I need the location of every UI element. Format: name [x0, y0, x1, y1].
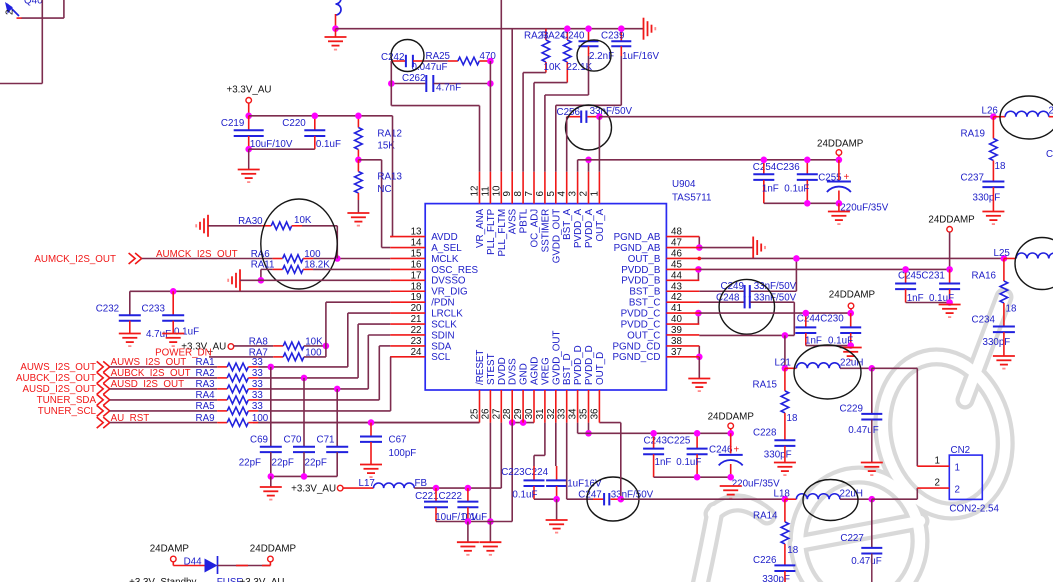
svg-text:PVDD_A: PVDD_A	[584, 208, 595, 248]
wire PVDD_B pins 44,45	[697, 269, 699, 280]
svg-text:2: 2	[955, 485, 960, 496]
junction	[847, 342, 854, 349]
svg-text:LRCLK: LRCLK	[431, 309, 463, 320]
svg-text:GVDD_OUT: GVDD_OUT	[551, 209, 562, 263]
svg-text:11: 11	[480, 186, 491, 196]
junction	[990, 113, 997, 120]
wire AVSS net	[336, 28, 644, 30]
junction	[465, 518, 472, 525]
wire RA23 to pin8	[523, 72, 546, 74]
pin 30 AGND	[533, 390, 535, 423]
junction	[245, 146, 252, 153]
wire LRCLK riser	[347, 313, 349, 367]
junction	[869, 365, 876, 372]
junction	[782, 496, 789, 503]
pin 34 PVDD_D	[577, 390, 579, 423]
pin 15 MCLK	[390, 257, 425, 259]
svg-text:SCL: SCL	[431, 352, 451, 363]
pin 16 OSC_RES	[390, 268, 425, 270]
wire OUT_B net	[699, 257, 1004, 259]
wire RA30 net	[208, 225, 262, 227]
pin 20 LRCLK	[390, 312, 425, 314]
junction	[596, 113, 603, 120]
annotation circle around C248 C249	[719, 279, 774, 334]
capacitor C69 22pF	[270, 367, 272, 447]
svg-text:C246: C246	[709, 445, 733, 456]
wire GVDD_OUT pin32 to C224	[555, 423, 557, 466]
ground (rotated left)	[228, 269, 240, 291]
svg-text:C254C236: C254C236	[753, 162, 800, 173]
resistor RA13 NC	[355, 172, 363, 194]
svg-text:30: 30	[524, 408, 535, 419]
wire VREG pin31 to C223	[544, 423, 546, 456]
svg-text:10K: 10K	[544, 62, 562, 73]
svg-text:RA1: RA1	[196, 357, 215, 368]
pin 13 AVDD	[390, 236, 425, 238]
ground	[698, 357, 700, 379]
svg-text:39: 39	[671, 325, 682, 336]
svg-text:VR_ANA: VR_ANA	[475, 208, 486, 248]
resistor RA4 33	[110, 399, 218, 401]
svg-text:8: 8	[513, 191, 524, 197]
resistor RA14 18	[784, 499, 786, 522]
svg-text:28: 28	[502, 408, 513, 419]
svg-text:26: 26	[480, 408, 491, 419]
pin 26 STEST	[489, 390, 491, 423]
svg-text:7: 7	[524, 191, 535, 196]
wire C248 to OUT_C	[793, 302, 795, 335]
wire ground rail	[436, 521, 512, 523]
svg-text:OUT_A: OUT_A	[595, 208, 606, 241]
svg-text:27: 27	[491, 409, 502, 420]
junction	[368, 419, 375, 426]
svg-text:C219: C219	[221, 118, 244, 129]
svg-text:PVDD_D: PVDD_D	[573, 345, 584, 385]
annotation circle around L26	[1000, 96, 1053, 139]
ground	[270, 476, 272, 487]
svg-text:SSTIMER: SSTIMER	[540, 209, 551, 253]
wire L18 to CN pin2	[872, 498, 918, 500]
svg-text:C228: C228	[753, 428, 777, 439]
svg-text:VR_DIG: VR_DIG	[431, 287, 467, 298]
junction	[782, 332, 789, 339]
svg-text:PVDD_D: PVDD_D	[584, 345, 595, 385]
wire	[22, 17, 64, 19]
svg-text:RA3: RA3	[196, 379, 216, 390]
svg-text:+3.3V_AU: +3.3V_AU	[291, 484, 336, 495]
junction	[946, 266, 953, 273]
svg-text:6: 6	[535, 191, 546, 197]
svg-text:0.47uF: 0.47uF	[848, 425, 879, 436]
annotation circle around C242	[391, 40, 424, 72]
svg-text:C237: C237	[961, 173, 984, 184]
pin 45 PVDD_B	[666, 268, 699, 270]
svg-text:RA12: RA12	[377, 129, 402, 140]
junction	[650, 430, 657, 437]
svg-text:C223C224: C223C224	[501, 467, 548, 478]
wire C249 to OUT_B	[795, 258, 797, 291]
svg-text:AGND: AGND	[530, 357, 541, 385]
pin 9 BST_A	[511, 172, 513, 204]
pin 22 SDIN	[390, 334, 425, 336]
svg-text:GVDD_OUT: GVDD_OUT	[551, 331, 562, 385]
junction	[727, 430, 734, 437]
wire	[258, 366, 348, 368]
svg-text:AVDD: AVDD	[431, 232, 458, 243]
svg-text:AUBCK_I2S_OUT: AUBCK_I2S_OUT	[16, 373, 96, 384]
capacitor C70 22pF	[303, 378, 305, 447]
wire C219-C220 bottoms	[249, 148, 315, 150]
svg-text:RA15: RA15	[753, 380, 778, 391]
junction	[334, 255, 341, 262]
svg-text:330pF: 330pF	[973, 193, 1001, 204]
svg-text:VREG: VREG	[540, 357, 551, 385]
ground	[162, 334, 184, 347]
svg-text:MCLK: MCLK	[431, 254, 459, 265]
junction	[585, 430, 592, 437]
junction	[761, 157, 768, 164]
svg-text:22pF: 22pF	[239, 458, 261, 469]
pin 31 VREG	[544, 390, 546, 423]
svg-text:36: 36	[589, 408, 600, 419]
svg-text:OC_ADJ: OC_ADJ	[530, 209, 541, 248]
svg-text:1uF16V: 1uF16V	[567, 479, 602, 490]
pin 6 OC_ADJ	[544, 172, 546, 204]
pin 4 AVSS	[566, 172, 568, 204]
svg-text:2: 2	[579, 191, 590, 196]
svg-text:BST_C: BST_C	[629, 298, 661, 309]
wire STEST pin26 to ground rail	[489, 423, 491, 522]
svg-text:C71: C71	[317, 434, 335, 445]
svg-text:1nF: 1nF	[655, 457, 672, 468]
resistor RA8 10K	[234, 345, 273, 347]
wire PGND_CD pins 37,38	[698, 346, 700, 357]
junction	[618, 496, 625, 503]
ground	[838, 203, 840, 211]
junction	[585, 25, 592, 32]
svg-text:A_SEL: A_SEL	[431, 243, 462, 254]
pin 7 SSTIMER	[533, 172, 535, 204]
wire +3.3V_AU rail	[249, 115, 393, 117]
svg-text:TUNER_SCL: TUNER_SCL	[38, 406, 97, 417]
svg-text:RA13: RA13	[377, 172, 402, 183]
pin 48 PGND_AB	[666, 236, 699, 238]
junction	[268, 473, 275, 480]
annotation circle around RA30 RA6	[261, 199, 337, 289]
svg-text:L21: L21	[775, 358, 791, 369]
junction	[323, 343, 330, 350]
svg-text:15: 15	[411, 248, 422, 259]
pin 8 GVDD_OUT	[522, 172, 524, 204]
junction	[170, 288, 177, 295]
junction	[696, 354, 703, 361]
pin stub	[335, 14, 337, 29]
svg-text:AUWS_I2S_OUT: AUWS_I2S_OUT	[20, 362, 96, 373]
svg-text:21: 21	[411, 314, 422, 325]
junction	[487, 518, 494, 525]
junction	[727, 474, 734, 481]
svg-text:45: 45	[671, 259, 682, 270]
svg-text:1nF: 1nF	[762, 184, 779, 195]
junction	[1001, 255, 1008, 262]
wire OUT_D net	[621, 498, 785, 500]
pin 2 of CN2	[917, 487, 949, 489]
wire BST_D pin33 to C247	[566, 423, 568, 500]
svg-text:24DDAMP: 24DDAMP	[817, 139, 864, 150]
pin 1 VR_ANA	[598, 172, 600, 204]
svg-text:RA16: RA16	[972, 271, 997, 282]
svg-text:PVDD_C: PVDD_C	[621, 319, 661, 330]
svg-text:330pF: 330pF	[762, 574, 790, 582]
wire PVDD_D rail	[578, 432, 731, 434]
annotation circle around L21	[794, 345, 861, 399]
svg-text:2: 2	[935, 477, 940, 488]
junction	[553, 496, 560, 503]
pin 36 OUT_D	[598, 390, 600, 423]
inductor L (partial, top)	[336, 0, 342, 15]
ground (rotated)	[644, 18, 656, 40]
pin 29 GND	[522, 390, 524, 423]
wire SCLK riser	[357, 324, 359, 378]
junction	[301, 375, 308, 382]
port chevron	[97, 405, 110, 416]
wire POWER_DN riser to /PDN	[325, 302, 327, 357]
svg-text:0.1uF: 0.1uF	[316, 139, 341, 150]
svg-text:100: 100	[305, 347, 322, 358]
junction	[695, 266, 702, 273]
svg-text:24DDAMP: 24DDAMP	[250, 543, 297, 554]
ground	[861, 463, 883, 476]
wire DVSS to ground rail	[511, 423, 513, 522]
svg-text:34: 34	[568, 408, 579, 419]
svg-text:PVDD_C: PVDD_C	[621, 309, 661, 320]
pin 2 PLL_FLTP	[588, 172, 590, 204]
wire cap bottoms	[534, 498, 557, 500]
svg-text:C226: C226	[753, 555, 777, 566]
svg-text:AUSD_I2S_OUT: AUSD_I2S_OUT	[22, 384, 96, 395]
annotation circle around C256	[566, 105, 612, 150]
svg-text:5: 5	[546, 191, 557, 197]
resistor RA5 33	[110, 410, 218, 412]
svg-text:18: 18	[411, 281, 422, 292]
capacitor C225 0.1uF	[696, 433, 698, 448]
svg-text:18: 18	[787, 545, 798, 556]
ground (rotated)	[753, 237, 765, 259]
wire	[258, 399, 379, 401]
ground	[556, 499, 558, 520]
wire PVDD_A rail 24DDAMP	[578, 159, 839, 161]
wire OUT_C to L21	[784, 335, 786, 368]
svg-text:L25: L25	[994, 248, 1011, 259]
svg-text:16: 16	[411, 259, 422, 270]
wire OUT_C net	[699, 334, 794, 336]
ground	[335, 29, 337, 37]
resistor RA12 15K	[357, 116, 359, 128]
svg-text:PLL_FLTP: PLL_FLTP	[486, 208, 497, 255]
junction	[258, 277, 265, 284]
svg-text:17: 17	[411, 270, 422, 281]
ground	[982, 212, 1004, 225]
svg-text:43: 43	[671, 281, 682, 292]
svg-text:40: 40	[671, 314, 682, 325]
svg-text:RA14: RA14	[753, 511, 778, 522]
junction	[312, 113, 319, 120]
svg-text:CN2: CN2	[951, 445, 971, 456]
wire OUT_A pin1	[598, 117, 600, 172]
port chevron	[97, 417, 110, 428]
junction	[355, 157, 362, 164]
pin 47 PGND_AB	[666, 247, 699, 249]
pin 40 PVDD_C	[666, 323, 699, 325]
wire +3.3V rail	[414, 487, 501, 489]
wire to pin 14 A_SEL	[358, 159, 381, 161]
svg-text:DVSSO: DVSSO	[431, 276, 466, 287]
junction	[520, 419, 527, 426]
wire RA24 to pin7	[534, 82, 567, 84]
resistor RA9 100	[110, 422, 218, 424]
wire cap bottoms	[906, 302, 950, 304]
wire L21 to CN pin1	[872, 367, 918, 369]
resistor RA2 33	[110, 377, 218, 379]
wire PVDD_D pins 34,35	[577, 423, 579, 434]
svg-text:RA30: RA30	[238, 216, 263, 227]
pin 33 BST_D	[566, 390, 568, 423]
svg-text:35: 35	[579, 408, 590, 419]
wire PLL left node	[390, 61, 392, 106]
pin 14 A_SEL	[390, 247, 425, 249]
svg-text:+: +	[734, 445, 740, 456]
resistor RA1 33	[110, 366, 218, 368]
svg-text:330pF: 330pF	[983, 337, 1011, 348]
ground	[774, 463, 796, 476]
wire MCLK net	[142, 258, 273, 260]
junction	[618, 25, 625, 32]
wire	[41, 0, 43, 84]
svg-text:STEST: STEST	[486, 353, 497, 385]
svg-text:L18: L18	[774, 489, 791, 500]
pin 35 PVDD_D	[588, 390, 590, 423]
pin 27 DVDD	[500, 390, 502, 423]
svg-text:OSC_RES: OSC_RES	[431, 265, 478, 276]
pin 24 SCL	[390, 356, 425, 358]
wire PVDD_B rail	[698, 268, 949, 270]
junction	[869, 496, 876, 503]
junction	[388, 80, 395, 87]
svg-text:C240: C240	[561, 31, 585, 42]
wire	[313, 268, 390, 270]
ground	[840, 348, 862, 361]
wire SCL riser	[390, 357, 392, 411]
pin 37 PGND_CD	[666, 356, 699, 358]
svg-text:SDIN: SDIN	[431, 330, 454, 341]
svg-text:0.047uF: 0.047uF	[412, 62, 448, 73]
wire cap bottoms	[806, 345, 851, 347]
wire BST_A pin4	[566, 117, 568, 172]
capacitor C224 1uF16V	[556, 466, 558, 480]
ground	[360, 465, 382, 478]
resistor RA23 10K	[545, 29, 547, 40]
ground	[720, 486, 742, 499]
svg-text:29: 29	[513, 409, 524, 420]
svg-text:+3.3V_AU: +3.3V_AU	[227, 85, 272, 96]
annotation circle around L18	[803, 480, 858, 521]
pin 10 PVDD_A	[500, 172, 502, 204]
svg-text:24DDAMP: 24DDAMP	[829, 290, 876, 301]
junction	[793, 255, 800, 262]
svg-text:+3.3V_AU: +3.3V_AU	[240, 577, 285, 582]
junction	[585, 157, 592, 164]
resistor RA24 22.1K	[566, 29, 568, 40]
wire C239 to pin5	[620, 56, 622, 105]
svg-text:38: 38	[671, 336, 682, 347]
junction	[847, 310, 854, 317]
svg-text:47: 47	[671, 238, 682, 249]
wire	[218, 565, 271, 567]
wire /RESET pin25 to AU_RST row	[253, 422, 480, 424]
svg-text:RA11: RA11	[251, 259, 275, 270]
junction	[946, 299, 953, 306]
svg-text:4: 4	[557, 191, 568, 197]
svg-text:10K: 10K	[294, 215, 312, 226]
ground	[993, 356, 1015, 369]
wire RA30 to MCLK	[302, 225, 337, 227]
svg-text:BST_A: BST_A	[562, 208, 573, 240]
wire DVSSO net	[240, 279, 390, 281]
svg-text:22: 22	[411, 325, 422, 336]
wire	[258, 377, 358, 379]
wire to pin 13 AVDD	[392, 116, 394, 237]
pin 23 SDA	[390, 345, 425, 347]
wire DVDD pin27 to +3.3V rail	[500, 423, 502, 489]
svg-text:33nF/50V: 33nF/50V	[590, 106, 633, 117]
svg-text:24: 24	[411, 347, 422, 358]
svg-text:DVDD: DVDD	[497, 357, 508, 385]
pin 32 GVDD_OUT	[555, 390, 557, 423]
wire OUT_A net	[599, 116, 993, 118]
svg-text:20: 20	[411, 303, 422, 314]
svg-text:24DDAMP: 24DDAMP	[928, 215, 975, 226]
svg-text:C70: C70	[284, 434, 303, 445]
svg-text:GND: GND	[519, 363, 530, 385]
wire	[258, 388, 368, 390]
pin 18 VR_DIG	[390, 290, 425, 292]
junction	[334, 386, 341, 393]
pin 42 BST_C	[666, 301, 699, 303]
svg-text:25: 25	[470, 408, 481, 419]
capacitor C240 2.2nF	[588, 29, 590, 42]
svg-text:U904: U904	[672, 179, 696, 190]
svg-text:RA2: RA2	[196, 368, 215, 379]
svg-text:BST_D: BST_D	[562, 353, 573, 385]
svg-text:AUMCK_I2S_OUT: AUMCK_I2S_OUT	[34, 254, 116, 265]
resistor RA7 100	[209, 356, 273, 358]
svg-text:RA9: RA9	[196, 413, 215, 424]
wire OUT_D pin36	[599, 422, 620, 424]
wire cap bottoms	[764, 202, 839, 204]
wire	[258, 422, 479, 424]
svg-text:10K: 10K	[305, 336, 323, 347]
junction	[245, 113, 252, 120]
svg-text:31: 31	[535, 409, 546, 420]
svg-text:C243C225: C243C225	[644, 436, 691, 447]
ground	[347, 213, 369, 226]
svg-text:PVDD_B: PVDD_B	[621, 276, 661, 287]
svg-text:4.7nF: 4.7nF	[436, 83, 461, 94]
capacitor C222 0.1uF	[467, 488, 469, 502]
svg-text:C69: C69	[250, 434, 268, 445]
svg-text:1: 1	[955, 463, 960, 474]
svg-text:33: 33	[557, 408, 568, 419]
